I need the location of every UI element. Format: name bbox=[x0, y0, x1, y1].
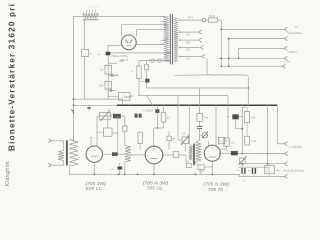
tube V2 bbox=[145, 146, 163, 164]
svg-text:12A: 12A bbox=[266, 170, 270, 173]
wire output line bbox=[238, 153, 284, 155]
slider bar under R-mains bbox=[83, 19, 99, 21]
chevron output bus bbox=[284, 174, 287, 178]
resistor box D2 bbox=[245, 136, 250, 145]
wire B+ to interstage primary bbox=[188, 105, 190, 144]
fuse box bbox=[206, 19, 209, 21]
junction dots output line bbox=[241, 153, 243, 155]
wire small box stub bbox=[225, 140, 228, 142]
terminal line E bbox=[221, 65, 282, 67]
chevron D bbox=[284, 56, 287, 60]
wire cap down bbox=[199, 128, 201, 140]
cap row top wire bbox=[238, 166, 270, 168]
wire pot feed from x178 bbox=[177, 95, 179, 140]
wire x199.6 from top line bbox=[199, 88, 201, 114]
pot circle small bbox=[202, 133, 207, 138]
secondary tap line 220 bbox=[179, 31, 181, 33]
wire bleeder vertical bbox=[107, 55, 109, 99]
svg-text:0,1: 0,1 bbox=[100, 68, 104, 72]
wire core bottom to bus bbox=[68, 166, 70, 174]
divider box RB3 bbox=[119, 93, 130, 101]
svg-text:4V: 4V bbox=[130, 95, 133, 98]
electrolytic pair 2 bbox=[252, 168, 254, 174]
junction rail R2 left bbox=[73, 104, 75, 106]
wire x228.8 vertical bbox=[228, 39, 230, 67]
wire x242 upper bbox=[241, 105, 243, 153]
input terminal chevron top bbox=[48, 139, 51, 143]
resistor box D1 bbox=[245, 112, 250, 123]
svg-text:0,1: 0,1 bbox=[167, 116, 171, 120]
wire tube3 pin up 2 bbox=[215, 105, 217, 146]
wire vertical x139 bbox=[138, 61, 140, 66]
grid stopper box tube1 bbox=[104, 128, 112, 136]
rail R1 bbox=[74, 98, 123, 100]
chevron speaker line bbox=[284, 162, 287, 166]
terminal line C bbox=[239, 47, 284, 49]
cathode resistor box tube3 bbox=[198, 165, 204, 169]
wire blob down bbox=[156, 113, 158, 128]
svg-text:=Anschl.(220V)μ: =Anschl.(220V)μ bbox=[283, 169, 305, 173]
svg-text:≈220Vω: ≈220Vω bbox=[288, 50, 298, 54]
wire secondary top to vertical bbox=[69, 139, 73, 141]
junction x242 bbox=[241, 128, 243, 130]
chevron C bbox=[284, 46, 287, 50]
wire x124 vertical bbox=[124, 116, 126, 126]
rail R2 bbox=[74, 104, 118, 106]
wire x248.3 vertical bbox=[247, 77, 249, 105]
svg-text:+~: +~ bbox=[98, 52, 102, 56]
bias box interstage bbox=[186, 163, 191, 167]
resistor box B2 bbox=[146, 61, 148, 65]
wire grid box to tube bbox=[226, 146, 228, 149]
wire x242 to output line bbox=[246, 108, 248, 112]
capacitor blobs pair bbox=[135, 114, 138, 118]
transformer core bbox=[169, 14, 171, 65]
wire mains top bbox=[74, 15, 164, 17]
rectifier tube V4 bbox=[121, 35, 136, 50]
svg-text:220: 220 bbox=[186, 33, 191, 36]
fuse Si1 box bbox=[82, 50, 89, 57]
svg-text:6(0,3): 6(0,3) bbox=[209, 15, 215, 18]
wire HT tap to fuse bbox=[179, 19, 181, 21]
fuse oval 1 on F2 bbox=[150, 59, 155, 62]
resistor box on x139 bbox=[137, 66, 141, 79]
svg-text:Tr: Tr bbox=[90, 52, 92, 56]
wire cathode cap to bus bbox=[119, 170, 121, 175]
tick marks above mains resistor bbox=[85, 10, 88, 12]
squiggle heater wire bbox=[175, 74, 211, 76]
interstage core bbox=[193, 144, 195, 166]
svg-text:1,2k: 1,2k bbox=[251, 139, 257, 143]
junction rail R1 left bbox=[73, 98, 75, 100]
output bus lower bbox=[239, 176, 284, 178]
svg-text:70k: 70k bbox=[204, 116, 209, 120]
wire x267 vertical bbox=[266, 105, 268, 164]
chevron E bbox=[282, 64, 285, 68]
wire heater F2 bbox=[139, 60, 168, 62]
wire tube3 cathode bbox=[211, 161, 213, 174]
small box x169 bbox=[168, 132, 170, 137]
transformer primary winding bbox=[164, 16, 170, 62]
wire x124 lower bbox=[124, 131, 126, 145]
anode box tube2 bbox=[173, 152, 179, 158]
wire tube1 cathode bbox=[93, 162, 95, 174]
svg-text:17Ω: 17Ω bbox=[113, 131, 118, 135]
wire box to cathode line bbox=[204, 166, 212, 168]
potentiometer box with arrow bbox=[182, 137, 189, 144]
pot with arrow on grid line bbox=[100, 112, 111, 119]
wire x221.3 vertical bbox=[220, 20, 222, 66]
screen resistor box bbox=[163, 105, 165, 112]
tap 2 with circle bbox=[108, 90, 113, 92]
wire tube2 top pin bbox=[153, 128, 155, 146]
svg-text:≈+300V: ≈+300V bbox=[143, 108, 153, 112]
resistor box RB2 bbox=[105, 82, 112, 90]
wire to cap row bbox=[241, 164, 243, 167]
svg-text:6,3V≈: 6,3V≈ bbox=[284, 60, 292, 64]
small box on x124 bbox=[123, 126, 127, 131]
junction dots on bus bbox=[93, 173, 95, 175]
capacitor blob right of pot bbox=[113, 114, 121, 119]
hook mark on left vertical bbox=[71, 110, 73, 114]
input terminal chevron bottom bbox=[48, 163, 51, 167]
grid box tube3 bbox=[224, 138, 229, 146]
svg-text:150: 150 bbox=[186, 41, 191, 44]
resistor R-mains (barretter) bbox=[83, 13, 99, 19]
capacitor blob under B2 bbox=[145, 79, 149, 83]
stub vertical x207 bbox=[206, 59, 208, 75]
input transformer core bbox=[66, 140, 68, 165]
terminal line D bbox=[219, 57, 284, 59]
feedback line y88 bbox=[147, 87, 249, 89]
svg-text:30Ω: 30Ω bbox=[119, 59, 124, 63]
capacitor blob anode1 bbox=[112, 152, 118, 156]
wire screen box down bbox=[163, 122, 165, 128]
chevron output line bbox=[284, 151, 287, 155]
secondary tap line 150 bbox=[179, 39, 181, 41]
wire secondary bottom to box bbox=[195, 162, 197, 164]
wire box to interstage bbox=[179, 154, 186, 156]
wire tube1 anode bbox=[103, 153, 113, 155]
capacitor C-filter block bbox=[106, 52, 111, 56]
chevron A bbox=[284, 27, 287, 31]
feedback line y95.4 bbox=[138, 94, 228, 96]
coupling capacitor plates bbox=[197, 125, 202, 127]
svg-text:200: 200 bbox=[99, 83, 104, 87]
input transformer primary winding bbox=[58, 150, 64, 160]
rail B+ thick bbox=[117, 104, 277, 106]
wire box to pin bbox=[97, 131, 104, 133]
svg-text:Bionette-Verstärker 31620 pri: Bionette-Verstärker 31620 pri bbox=[8, 3, 17, 151]
wire tube2 anode bbox=[163, 154, 173, 156]
wire blob stub bbox=[239, 116, 243, 118]
chevron B+ terminal bbox=[284, 142, 287, 146]
wire pot stub bbox=[200, 134, 203, 136]
stubs caps to bus bbox=[243, 174, 245, 177]
wire x242 mid bbox=[246, 123, 248, 137]
svg-text:30 Ω: 30 Ω bbox=[188, 15, 194, 19]
resistor box RB1 bbox=[105, 65, 112, 74]
secondary tap line 110 bbox=[179, 55, 181, 57]
svg-text:zu: zu bbox=[295, 26, 298, 29]
grid resistor box bbox=[197, 114, 202, 122]
interstage secondary winding bbox=[196, 143, 202, 162]
small box left x221 bbox=[218, 137, 224, 143]
svg-text:15k: 15k bbox=[251, 115, 256, 119]
wire filament right bbox=[136, 43, 162, 45]
terminal line A bbox=[221, 28, 284, 30]
wire vertical tapped from slider bbox=[84, 20, 86, 50]
wire anode 2 bbox=[135, 30, 137, 37]
capacitor blob anode bbox=[231, 151, 238, 155]
wire pot down bbox=[185, 143, 187, 150]
wire coil bottom to bus bbox=[124, 162, 126, 174]
wire box top stub bbox=[269, 164, 271, 166]
junction dots on B+ rail bbox=[129, 104, 131, 106]
tube V3 output bbox=[204, 145, 220, 161]
wire blob bottom link bbox=[235, 119, 237, 128]
wire bleeder top branch bbox=[108, 62, 117, 64]
wire tube1 left pin bbox=[90, 137, 92, 146]
wire box to bus bbox=[200, 169, 202, 174]
fuse oval 2 on F2 bbox=[157, 59, 162, 62]
wire B+ terminal bbox=[276, 105, 278, 144]
box with arrow below bbox=[240, 158, 245, 164]
chevron B bbox=[284, 36, 287, 40]
svg-text:(705 N 3W): (705 N 3W) bbox=[203, 181, 229, 187]
wire vertical left long bbox=[73, 16, 75, 141]
output cap box 4uF bbox=[265, 166, 275, 174]
wire box top to grid line bbox=[107, 116, 109, 128]
capacitor blob dropper bbox=[232, 114, 239, 119]
terminal line B bbox=[229, 38, 284, 40]
wire fuse to corner bbox=[217, 19, 221, 21]
junction tube3 anode bbox=[219, 152, 221, 154]
fuse lamp circle bbox=[202, 18, 206, 22]
svg-text:2,5: 2,5 bbox=[230, 140, 234, 144]
wire blob to y88 bbox=[146, 83, 148, 89]
primary tap arrows bbox=[161, 21, 164, 23]
volume coil vertical bbox=[125, 146, 131, 162]
svg-text:Vorverstärk.: Vorverstärk. bbox=[287, 31, 302, 35]
wire anode 1 bbox=[121, 25, 123, 37]
capacitor blob above tube2 bbox=[155, 109, 159, 113]
svg-text:705 70: 705 70 bbox=[208, 187, 224, 193]
wire tube2 cathode bbox=[153, 164, 155, 175]
diagonal to rail bbox=[147, 95, 153, 105]
svg-text:125: 125 bbox=[186, 49, 191, 52]
wire cathode left bbox=[108, 44, 121, 46]
input transformer secondary winding bbox=[69, 140, 78, 166]
svg-text:z. V.(6,3V): z. V.(6,3V) bbox=[289, 145, 302, 149]
svg-text:Klangfilm: Klangfilm bbox=[5, 161, 11, 186]
wire tube3 anode out bbox=[220, 152, 231, 154]
wire grid top line bbox=[97, 115, 124, 117]
tube V1 bbox=[86, 146, 102, 162]
junction speaker line bbox=[267, 163, 269, 165]
wire tube3 pin up 1 bbox=[208, 141, 210, 146]
wire anode1 vertical up bbox=[117, 116, 119, 154]
stub x89 from rail bbox=[88, 105, 90, 110]
ground bus bbox=[69, 173, 240, 175]
junction tube2 anode bbox=[162, 154, 164, 156]
wire RB2 bottom bbox=[107, 89, 109, 96]
wire from rail to blob bbox=[156, 105, 158, 109]
tap with circle and arrow bbox=[108, 74, 116, 76]
speaker line bbox=[242, 163, 284, 165]
svg-text:+~: +~ bbox=[111, 168, 115, 171]
svg-text:4P: 4P bbox=[172, 139, 175, 141]
interstage primary winding bbox=[189, 146, 193, 160]
tall box left of tube2 bbox=[138, 132, 142, 143]
secondary tap line 125 bbox=[179, 47, 181, 49]
electrolytic pair 1 bbox=[241, 168, 243, 174]
wire tube1 second pin bbox=[96, 116, 98, 147]
wire to coupling cap bbox=[199, 121, 201, 126]
wire wiper to tube2 grid bbox=[130, 154, 132, 156]
wire heater F1 bbox=[110, 52, 169, 54]
svg-text:110: 110 bbox=[186, 58, 191, 61]
svg-text:4μ: 4μ bbox=[276, 168, 280, 172]
svg-text:705 GL: 705 GL bbox=[147, 186, 164, 192]
capacitor block cathode bbox=[117, 167, 122, 170]
transformer secondary winding bbox=[174, 18, 178, 63]
svg-text:E09 LC: E09 LC bbox=[86, 186, 103, 192]
